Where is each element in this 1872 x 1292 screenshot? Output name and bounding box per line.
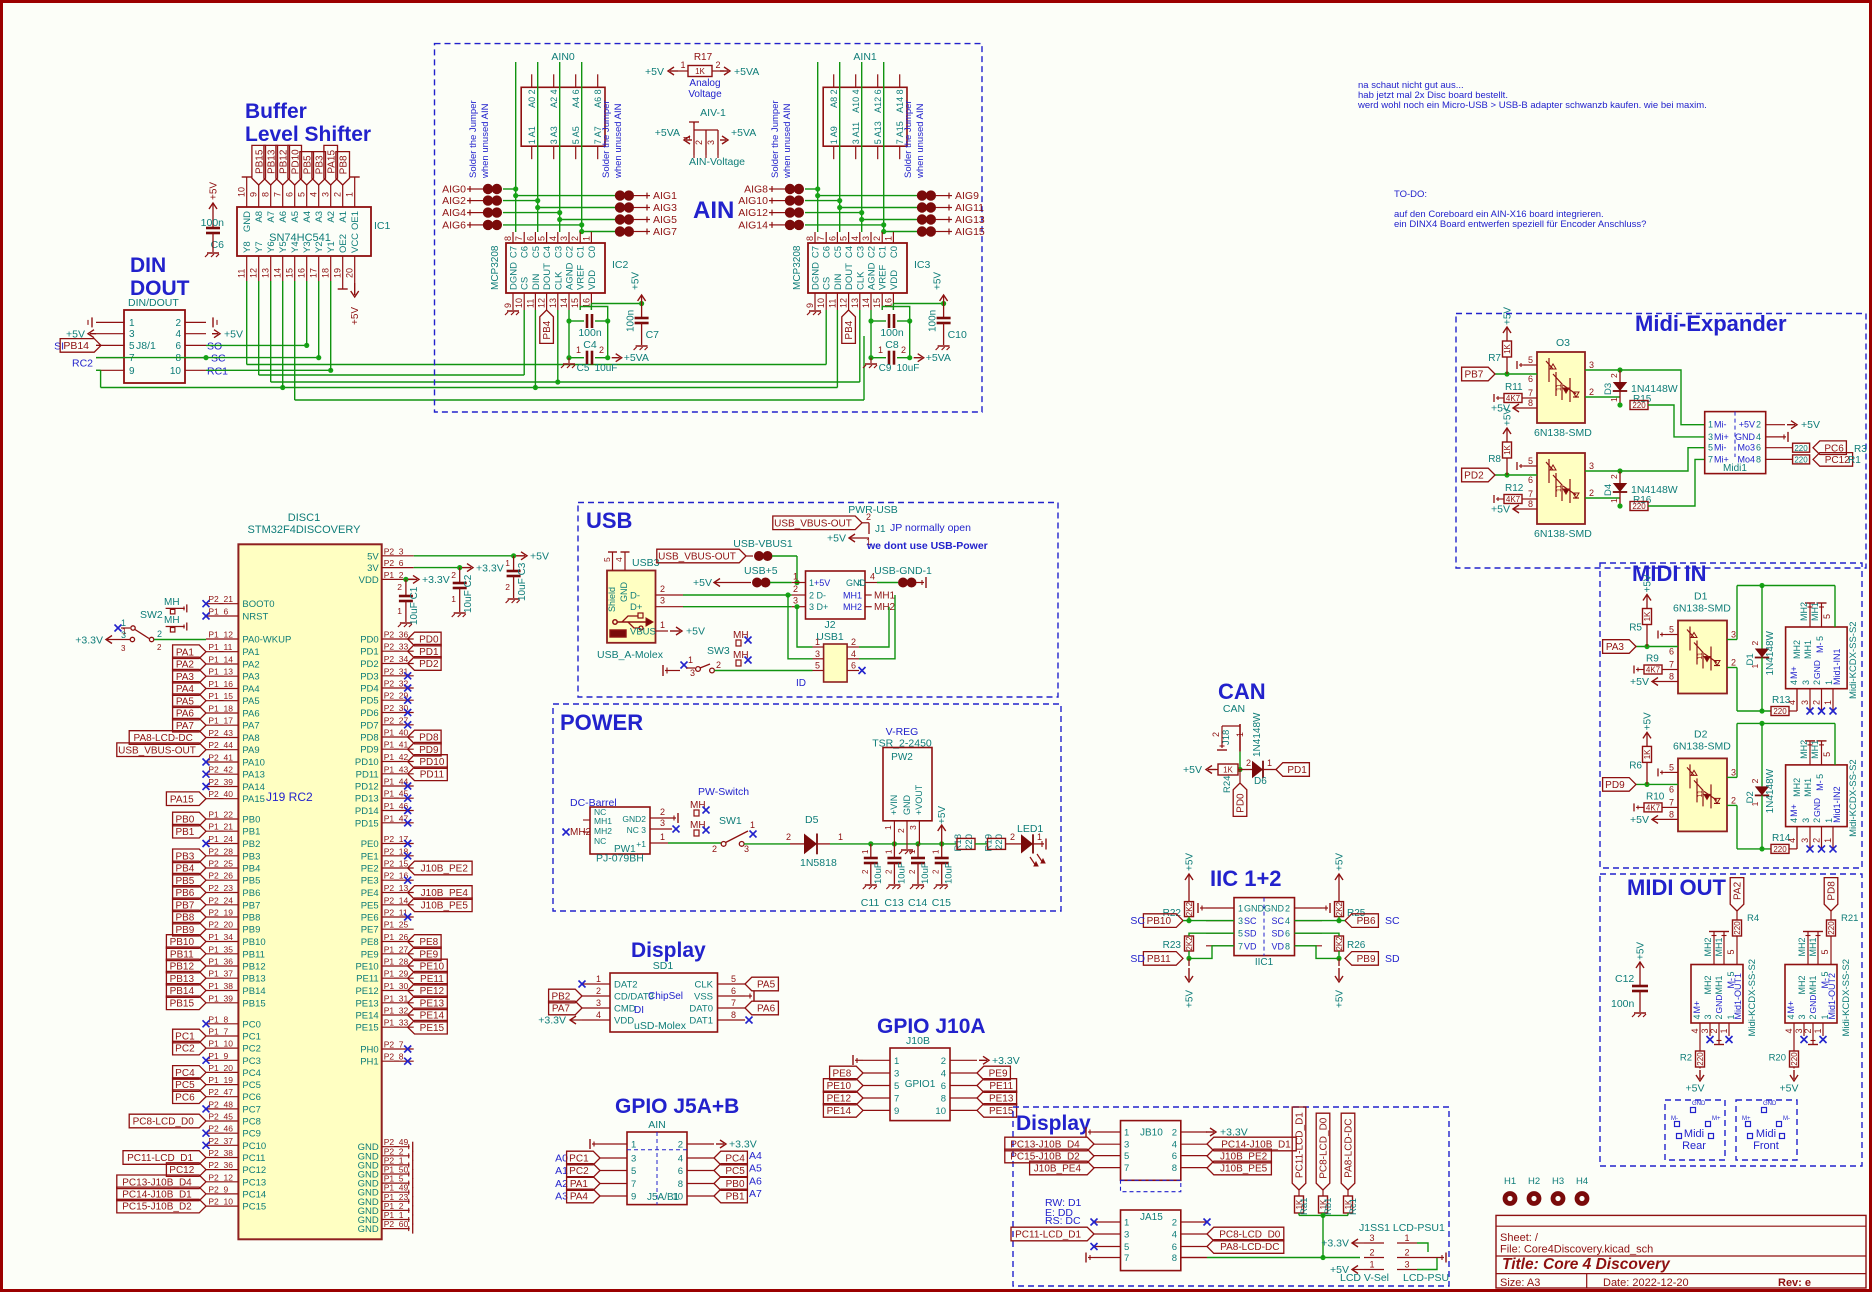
svg-text:2: 2 xyxy=(1812,680,1822,685)
J810 pin1 flag xyxy=(1088,1131,1094,1133)
DISC1 pin P1_47 PD15 xyxy=(382,822,414,824)
svg-text:PB1: PB1 xyxy=(726,1192,745,1203)
IC1 pin 10 GND xyxy=(246,185,248,207)
Mid1-OUT2 MH2 MH1 stubs xyxy=(1807,932,1809,965)
svg-text:R24: R24 xyxy=(1222,776,1233,793)
svg-text:A7: A7 xyxy=(266,211,277,223)
J10B pin 8 xyxy=(950,1097,977,1099)
J810 pin 4 xyxy=(1181,1143,1207,1145)
svg-text:2: 2 xyxy=(1731,658,1736,668)
svg-text:5: 5 xyxy=(631,1166,636,1177)
svg-text:MH1: MH1 xyxy=(843,591,862,601)
DISC1 pin P2_33 PD1 xyxy=(382,650,414,652)
svg-text:PD9: PD9 xyxy=(360,745,378,756)
svg-text:2: 2 xyxy=(1609,373,1619,378)
J5A/B1 pin 7 xyxy=(600,1183,627,1185)
svg-text:CS: CS xyxy=(520,277,531,290)
DISC1 pin P1_44 PD12 xyxy=(382,785,414,787)
global label PB9 xyxy=(1345,952,1378,966)
svg-text:when unused AIN: when unused AIN xyxy=(782,103,793,179)
DISC1 pin P1_43 PD11 xyxy=(382,773,414,775)
title block box xyxy=(1496,1215,1866,1288)
svg-text:2: 2 xyxy=(715,60,720,70)
svg-text:+5V: +5V xyxy=(1185,853,1196,871)
svg-text:5: 5 xyxy=(1820,949,1830,954)
svg-text:6: 6 xyxy=(1172,1151,1177,1162)
global label PA5 xyxy=(745,977,778,991)
svg-text:5 A5: 5 A5 xyxy=(571,126,581,144)
svg-text:D1: D1 xyxy=(1694,591,1708,603)
svg-text:AIN1: AIN1 xyxy=(853,51,877,63)
svg-text:A2 4: A2 4 xyxy=(549,89,559,108)
DISC1 pin P2_44 PA9 xyxy=(206,749,238,751)
IIC1 pin 7 VD xyxy=(1206,945,1234,947)
svg-text:11: 11 xyxy=(1697,652,1704,659)
svg-text:DAT0: DAT0 xyxy=(689,1004,713,1015)
svg-text:PA15: PA15 xyxy=(170,794,194,805)
J810 pin 6 xyxy=(1181,1155,1207,1157)
global label PC6 xyxy=(173,1090,206,1104)
global label PC2 xyxy=(173,1041,206,1055)
IC1 pin 16 Y3 xyxy=(306,256,308,281)
IC1 pin10 unconnected flag xyxy=(246,177,248,185)
svg-text:PD14: PD14 xyxy=(355,806,379,817)
svg-text:Midi-Expander: Midi-Expander xyxy=(1635,311,1787,336)
svg-text:PC14: PC14 xyxy=(242,1189,266,1200)
svg-text:C1: C1 xyxy=(878,246,889,258)
global label PE12 xyxy=(823,1091,863,1105)
svg-text:1K: 1K xyxy=(695,67,705,76)
global label PB15 xyxy=(252,145,266,185)
svg-text:AIG9: AIG9 xyxy=(955,190,979,202)
J8/1 pin 8 xyxy=(185,357,206,359)
connector J810 body xyxy=(1121,1121,1181,1181)
svg-text:11: 11 xyxy=(525,299,535,308)
svg-text:1: 1 xyxy=(505,558,510,568)
svg-text:8: 8 xyxy=(1172,1163,1177,1174)
svg-text:TO-DO:: TO-DO: xyxy=(1394,189,1427,200)
svg-text:5: 5 xyxy=(1528,456,1533,466)
svg-text:MH2: MH2 xyxy=(1799,740,1809,759)
svg-text:Y5: Y5 xyxy=(278,241,289,253)
svg-text:D3: D3 xyxy=(1603,383,1614,395)
svg-text:USB1: USB1 xyxy=(816,631,844,643)
DISC1 pin P1_18 PA6 xyxy=(206,712,238,714)
svg-text:D2: D2 xyxy=(1694,728,1708,740)
svg-text:M-: M- xyxy=(1815,780,1825,791)
svg-text:P2_29: P2_29 xyxy=(384,691,409,701)
svg-text:+5V: +5V xyxy=(686,626,705,638)
J8/1 pin 3 xyxy=(96,333,125,335)
global label PC11-LCD_D1 vertical xyxy=(1292,1107,1306,1190)
svg-text:11: 11 xyxy=(1556,485,1563,492)
svg-text:8: 8 xyxy=(1669,672,1674,682)
svg-text:7: 7 xyxy=(129,353,135,364)
svg-text:BOOT0: BOOT0 xyxy=(242,599,274,610)
svg-text:5: 5 xyxy=(815,661,820,671)
svg-text:2K2: 2K2 xyxy=(1335,901,1344,916)
svg-text:P2_45: P2_45 xyxy=(208,1112,233,1122)
svg-text:GND2: GND2 xyxy=(622,814,646,824)
svg-text:R10: R10 xyxy=(1646,791,1665,802)
svg-text:10uF: 10uF xyxy=(897,363,920,374)
JA15 pin 8 xyxy=(1181,1257,1207,1259)
svg-text:SD: SD xyxy=(1271,929,1284,939)
svg-text:PC2: PC2 xyxy=(175,1044,195,1055)
svg-text:A4: A4 xyxy=(749,1150,762,1162)
svg-text:+5V: +5V xyxy=(1801,419,1820,431)
IC2 pin 9 DGND xyxy=(512,293,514,310)
svg-text:PA2: PA2 xyxy=(1733,881,1744,900)
svg-text:PA5: PA5 xyxy=(757,980,776,991)
svg-text:Date: 2022-12-20: Date: 2022-12-20 xyxy=(1603,1277,1689,1289)
svg-text:5V: 5V xyxy=(367,551,379,562)
global label J10B_PE4 xyxy=(408,886,472,900)
svg-text:2: 2 xyxy=(1812,818,1822,823)
global label J10B_PE2 xyxy=(408,861,472,875)
svg-text:P2_36: P2_36 xyxy=(384,630,409,640)
global label PA1 xyxy=(173,645,206,659)
wire bus CLK shared riser xyxy=(555,379,560,384)
svg-text:5: 5 xyxy=(1822,752,1832,757)
global label PE8 xyxy=(408,935,441,949)
svg-text:IIC 1+2: IIC 1+2 xyxy=(1210,866,1282,891)
svg-text:2: 2 xyxy=(1285,904,1290,914)
svg-text:when unused AIN: when unused AIN xyxy=(613,103,624,179)
svg-text:VBUS: VBUS xyxy=(630,627,656,638)
svg-text:PE6: PE6 xyxy=(361,913,379,924)
svg-text:+5VA: +5VA xyxy=(731,127,756,139)
svg-text:Mid1-IN2: Mid1-IN2 xyxy=(1832,786,1842,823)
svg-text:3: 3 xyxy=(1731,630,1736,640)
svg-text:P1_11: P1_11 xyxy=(208,642,232,652)
svg-text:DOUT: DOUT xyxy=(542,263,553,290)
svg-text:5: 5 xyxy=(297,192,307,197)
svg-text:P2_17: P2_17 xyxy=(384,834,409,844)
svg-text:ID: ID xyxy=(796,678,806,689)
global label PE14 xyxy=(408,1008,448,1022)
svg-text:P2_12: P2_12 xyxy=(208,1172,233,1182)
IC2 pin 16 VDD xyxy=(590,293,592,310)
svg-text:PC13: PC13 xyxy=(242,1177,266,1188)
svg-text:Rc1: Rc1 xyxy=(1348,1198,1359,1215)
svg-text:Size: A3: Size: A3 xyxy=(1500,1277,1540,1289)
svg-text:+3.3V: +3.3V xyxy=(476,562,504,574)
global label PC11-LCD_D1 xyxy=(123,1151,206,1165)
label MH1 left of PW1 xyxy=(583,819,590,821)
no-connect Mid1-IN1 pin 2 xyxy=(1818,708,1825,715)
capacitor C11 10uF xyxy=(870,844,872,858)
global label PA15 xyxy=(324,145,338,185)
DISC1 pin P1_21 PB1 xyxy=(206,830,238,832)
svg-text:4: 4 xyxy=(1690,1028,1700,1033)
resistor Rb1 1K xyxy=(1322,1190,1324,1196)
svg-text:CMD: CMD xyxy=(614,1004,636,1015)
svg-text:PB15: PB15 xyxy=(170,998,195,1009)
svg-text:1: 1 xyxy=(883,236,893,241)
svg-text:A4 6: A4 6 xyxy=(571,89,581,108)
svg-text:8: 8 xyxy=(1669,809,1674,819)
svg-text:2 D-: 2 D- xyxy=(809,591,826,601)
svg-text:Y7: Y7 xyxy=(254,241,265,253)
power +3.3V at SD1 xyxy=(570,1019,572,1021)
svg-text:OE2: OE2 xyxy=(338,234,349,253)
svg-text:P2_8: P2_8 xyxy=(384,1052,404,1062)
svg-text:A2: A2 xyxy=(326,211,337,223)
svg-text:P1_8: P1_8 xyxy=(208,1014,228,1024)
JA15 pin 1 xyxy=(1094,1221,1121,1223)
svg-text:PB7: PB7 xyxy=(242,900,260,911)
svg-text:1: 1 xyxy=(1404,1233,1409,1243)
DISC1 pin P1_45 PD13 xyxy=(382,797,414,799)
svg-text:J18: J18 xyxy=(1221,730,1232,745)
connector Mid1-OUT1 body xyxy=(1691,965,1743,1024)
svg-text:2: 2 xyxy=(716,660,721,670)
svg-text:M+: M+ xyxy=(1789,804,1799,817)
IC3 pin 11 DIN xyxy=(836,293,838,310)
svg-text:PE8: PE8 xyxy=(361,937,379,948)
AIN0 jumper pin 5 A5 xyxy=(575,74,577,87)
svg-text:Midi: Midi xyxy=(1756,1128,1776,1140)
IC3 pin 4 C3 xyxy=(859,232,861,243)
svg-text:2: 2 xyxy=(1010,832,1015,842)
svg-text:AIG7: AIG7 xyxy=(653,226,677,238)
capacitor C3 10uF xyxy=(513,556,515,571)
global label PA6 xyxy=(745,1001,778,1015)
svg-text:1: 1 xyxy=(894,1056,899,1067)
svg-text:DIN: DIN xyxy=(130,254,166,277)
svg-text:R8: R8 xyxy=(1488,454,1501,465)
wire IC3 AGND/VREF/VDD xyxy=(870,310,872,358)
svg-text:8: 8 xyxy=(175,353,181,364)
svg-text:2: 2 xyxy=(1812,700,1822,705)
svg-text:1: 1 xyxy=(1124,1218,1129,1229)
global label PE13 xyxy=(408,996,448,1010)
svg-text:7: 7 xyxy=(816,236,826,241)
svg-text:2: 2 xyxy=(599,345,604,355)
global label PD0 xyxy=(408,632,441,646)
svg-text:4: 4 xyxy=(1756,432,1761,442)
IIC1 pin2 gnd flag xyxy=(1322,907,1328,909)
svg-text:JA15: JA15 xyxy=(1140,1212,1163,1223)
svg-text:A5: A5 xyxy=(749,1163,762,1175)
svg-text:3: 3 xyxy=(660,818,665,828)
global label PD1 xyxy=(408,644,441,658)
svg-text:PC5: PC5 xyxy=(725,1166,745,1177)
svg-text:PB11: PB11 xyxy=(242,949,265,960)
svg-text:5: 5 xyxy=(1726,949,1736,954)
svg-text:PB9: PB9 xyxy=(242,925,260,936)
wire RC1 to bus xyxy=(206,369,331,371)
J10B pin 2 xyxy=(950,1059,977,1061)
svg-text:MH2: MH2 xyxy=(1703,975,1713,994)
svg-text:P2_28: P2_28 xyxy=(208,846,233,856)
IC1 pin 18 Y1 xyxy=(330,256,332,281)
wire 3V to +3.3V xyxy=(414,567,460,569)
JA15 pin 4 xyxy=(1181,1233,1207,1235)
svg-text:PB8: PB8 xyxy=(338,155,349,174)
svg-text:3: 3 xyxy=(321,192,331,197)
svg-text:P2_23: P2_23 xyxy=(208,883,233,893)
global label PB11 xyxy=(1143,952,1183,966)
svg-text:P2_46: P2_46 xyxy=(208,1124,233,1134)
svg-text:+3.3V: +3.3V xyxy=(1321,1238,1349,1250)
connector J8/1 DIN/DOUT body xyxy=(124,310,185,383)
DISC1 pin P2_40 PA15 xyxy=(206,798,238,800)
connector Midi1 body xyxy=(1705,412,1766,474)
svg-text:C9: C9 xyxy=(879,363,892,374)
svg-text:4: 4 xyxy=(175,329,181,340)
svg-text:P2_18: P2_18 xyxy=(384,846,409,856)
svg-text:2: 2 xyxy=(786,832,791,842)
global label PC13-J10B_D4 xyxy=(117,1175,206,1189)
J810 pin 3 xyxy=(1094,1143,1121,1145)
svg-text:+VIN: +VIN xyxy=(889,795,899,815)
J10B pin 7 xyxy=(863,1097,890,1099)
IC3 pin 15 VREF xyxy=(881,293,883,310)
svg-text:P1_9: P1_9 xyxy=(208,1051,228,1061)
svg-text:Rb1: Rb1 xyxy=(1323,1198,1334,1215)
svg-text:+5VA: +5VA xyxy=(734,66,759,78)
svg-text:11: 11 xyxy=(1697,790,1704,797)
svg-text:P2_30: P2_30 xyxy=(384,703,409,713)
svg-text:PC2: PC2 xyxy=(569,1166,589,1177)
svg-text:AIG3: AIG3 xyxy=(653,202,677,214)
svg-text:MH1: MH1 xyxy=(1714,937,1724,956)
IIC1 pin 3 SC xyxy=(1206,920,1234,922)
connector USB3 USB_A-Molex body xyxy=(607,571,656,643)
power +5V below R26 xyxy=(1338,958,1340,966)
svg-text:C11: C11 xyxy=(861,897,880,909)
svg-text:3: 3 xyxy=(744,844,749,854)
svg-text:P1_36: P1_36 xyxy=(208,957,233,967)
svg-text:PA4: PA4 xyxy=(242,684,259,695)
svg-text:Rev: e: Rev: e xyxy=(1778,1277,1811,1289)
global label PA7 xyxy=(549,1001,582,1015)
DISC1 pin P1_6 NRST xyxy=(206,615,238,617)
svg-text:C14: C14 xyxy=(908,897,927,909)
svg-text:PB4: PB4 xyxy=(844,320,855,339)
svg-text:+5V: +5V xyxy=(209,182,220,200)
svg-text:6: 6 xyxy=(731,986,736,996)
global label PC4 with A4 xyxy=(714,1151,747,1165)
svg-text:USB_A-Molex: USB_A-Molex xyxy=(597,649,664,661)
svg-text:5: 5 xyxy=(1708,443,1713,453)
no-connect NRST xyxy=(203,613,210,620)
global label PD2 xyxy=(408,657,441,671)
DISC1 pin P2_12 PC13 xyxy=(206,1181,238,1183)
svg-text:R9: R9 xyxy=(1646,654,1659,665)
svg-text:1K: 1K xyxy=(1503,444,1512,454)
svg-text:PA6: PA6 xyxy=(757,1004,776,1015)
svg-text:Y8: Y8 xyxy=(242,241,253,253)
AIN1 jumper pin 7 A15 xyxy=(899,74,901,87)
svg-text:D4: D4 xyxy=(1603,484,1614,496)
svg-text:12: 12 xyxy=(537,298,547,308)
svg-text:3: 3 xyxy=(1369,1233,1374,1243)
svg-text:2: 2 xyxy=(1609,474,1619,479)
DISC1 pin P2_47 PC6 xyxy=(206,1096,238,1098)
svg-text:Sheet: /: Sheet: / xyxy=(1500,1232,1539,1244)
IC2 pin 4 C3 xyxy=(557,232,559,243)
svg-text:MH1: MH1 xyxy=(1803,778,1813,797)
svg-text:2: 2 xyxy=(1756,420,1761,430)
svg-text:P1_16: P1_16 xyxy=(208,679,233,689)
svg-text:Mi+: Mi+ xyxy=(1714,432,1729,442)
svg-text:Mid1-OUT2: Mid1-OUT2 xyxy=(1827,973,1837,1020)
svg-text:3: 3 xyxy=(1801,818,1811,823)
svg-text:3: 3 xyxy=(1708,432,1713,442)
svg-text:SD: SD xyxy=(1130,953,1145,965)
svg-text:4: 4 xyxy=(1789,680,1799,685)
svg-text:11: 11 xyxy=(827,299,837,308)
wire VD pins xyxy=(1189,946,1234,959)
svg-text:ChipSel: ChipSel xyxy=(648,991,683,1002)
svg-text:9: 9 xyxy=(129,366,135,377)
power +5VA at IC2 xyxy=(612,357,620,359)
JA15 pin 7 xyxy=(1094,1257,1121,1259)
svg-text:PA0-WKUP: PA0-WKUP xyxy=(242,635,291,646)
section dashed box MIDI OUT xyxy=(1600,874,1862,1166)
svg-text:2: 2 xyxy=(175,318,181,329)
global label PB14 xyxy=(166,984,206,998)
svg-text:DI: DI xyxy=(634,1005,644,1016)
global label PC15-J10B_D2 xyxy=(117,1199,206,1213)
svg-text:C4: C4 xyxy=(542,246,553,258)
no-connect PA10 xyxy=(203,759,210,766)
global label PB12 xyxy=(276,145,290,185)
svg-text:R6: R6 xyxy=(1629,760,1642,771)
svg-text:NRST: NRST xyxy=(242,612,268,623)
svg-text:A6: A6 xyxy=(749,1176,762,1188)
solder jumper pads AIG3 xyxy=(538,207,615,209)
DISC1 pin P2_30 PD6 xyxy=(382,712,414,714)
svg-text:PD11: PD11 xyxy=(356,769,379,780)
svg-text:P2_20: P2_20 xyxy=(208,920,233,930)
svg-text:3: 3 xyxy=(1124,1230,1129,1241)
svg-text:GND: GND xyxy=(1812,660,1822,679)
svg-text:PB3: PB3 xyxy=(242,851,260,862)
svg-text:3: 3 xyxy=(121,644,126,653)
section dashed box Midi-Expander xyxy=(1456,314,1866,569)
svg-text:PD0: PD0 xyxy=(360,635,378,646)
svg-text:8: 8 xyxy=(1756,454,1761,464)
svg-text:1: 1 xyxy=(793,572,798,582)
svg-text:3: 3 xyxy=(121,630,126,640)
global label PB1 with A7 xyxy=(714,1189,747,1203)
wire JA15 pin8 to LCD-PSU xyxy=(1181,1257,1207,1259)
DISC1 GND pin P1_50 xyxy=(382,1173,410,1175)
svg-text:M+: M+ xyxy=(1692,1001,1702,1014)
D2 pin 5 xyxy=(1665,771,1678,773)
svg-text:SD: SD xyxy=(1244,929,1257,939)
svg-text:PB1: PB1 xyxy=(242,827,260,838)
svg-text:M-: M- xyxy=(1783,1116,1790,1122)
svg-text:1: 1 xyxy=(878,345,883,355)
IIC1 pin 8 VD xyxy=(1295,945,1323,947)
svg-text:P1_10: P1_10 xyxy=(208,1039,233,1049)
svg-text:ein DINX4 Board entwerfen spez: ein DINX4 Board entwerfen speziell für E… xyxy=(1394,219,1646,230)
svg-text:LCD V-Sel: LCD V-Sel xyxy=(1340,1272,1389,1284)
svg-text:Solder the Jumper: Solder the Jumper xyxy=(903,100,914,178)
svg-text:PE8: PE8 xyxy=(832,1069,851,1080)
svg-text:AIN-Voltage: AIN-Voltage xyxy=(689,156,745,168)
wire 5V to +5V xyxy=(414,555,514,557)
global label PE9 xyxy=(977,1066,1010,1080)
connector Mid1-IN1 Midi-KCDX body xyxy=(1786,627,1848,689)
svg-text:100n: 100n xyxy=(626,310,637,332)
svg-text:P1_47: P1_47 xyxy=(384,813,409,823)
